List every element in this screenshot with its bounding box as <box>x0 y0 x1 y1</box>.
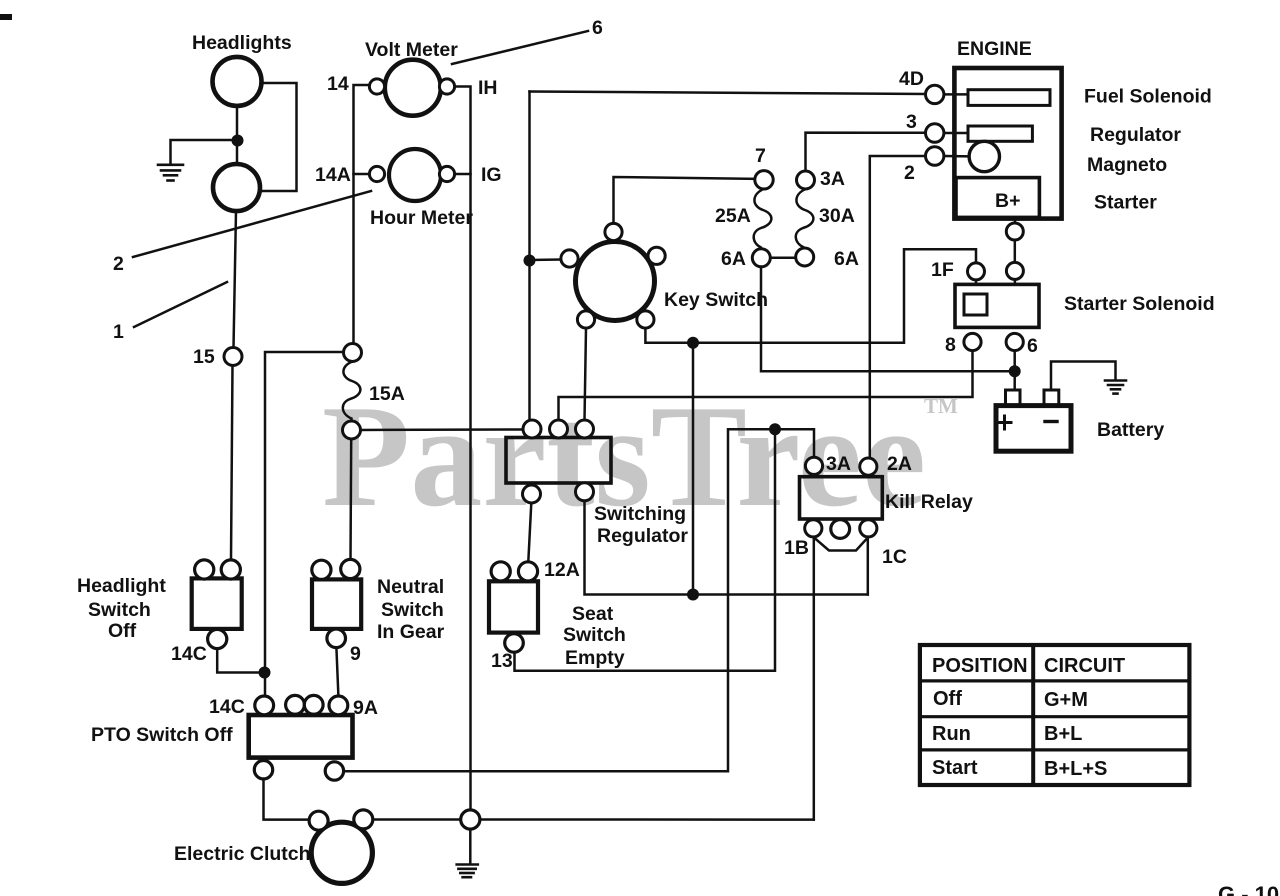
svg-text:7: 7 <box>755 145 766 167</box>
svg-text:3A: 3A <box>826 453 851 475</box>
wiring table frame <box>920 645 1190 785</box>
battery plus sign <box>998 416 1011 429</box>
wiring table column divider <box>1031 645 1035 785</box>
key switch S1 <box>576 242 655 321</box>
ground G3 (clutch line) <box>457 865 478 878</box>
headlight switch terminal bottom <box>208 629 227 648</box>
svg-text:15: 15 <box>193 346 215 368</box>
wire 6A link <box>771 257 796 260</box>
svg-text:Start: Start <box>932 757 978 779</box>
svg-text:Empty: Empty <box>565 647 625 669</box>
svg-text:Seat: Seat <box>572 603 614 625</box>
key switch terminal upper-right <box>648 247 665 264</box>
clutch terminal right <box>354 810 373 829</box>
wire 15A horizontal and 14C vertical <box>265 352 344 696</box>
svg-text:3: 3 <box>906 111 917 133</box>
wire regulator BR to kill relay 1C <box>585 501 868 595</box>
terminal 15 <box>224 348 242 366</box>
fuse F3 30A element <box>796 189 814 248</box>
wire key switch LL to regulator <box>585 328 587 420</box>
terminal 8 <box>964 333 981 350</box>
terminal 4D <box>926 85 944 103</box>
kill relay terminal 2A <box>860 458 877 475</box>
wire key switch top to fuse 7 <box>614 177 756 223</box>
connector on ground line <box>461 810 480 829</box>
wiring table row dividers <box>920 681 1190 750</box>
callout line 6 <box>452 31 588 64</box>
PTO terminal bottom left <box>254 761 272 779</box>
junction seat branch <box>769 423 781 435</box>
battery tab right <box>1044 390 1059 406</box>
wire B+ chain <box>1014 218 1017 224</box>
neutral switch terminal TL <box>312 560 331 579</box>
volt meter U1 <box>385 60 441 116</box>
regulator terminal top-right <box>576 420 594 438</box>
wire 4D feed vertical <box>528 92 531 421</box>
svg-text:13: 13 <box>491 650 513 672</box>
terminal 6 <box>1006 333 1023 350</box>
regulator terminal bottom-right <box>576 483 594 501</box>
junction B wire <box>524 255 536 267</box>
svg-text:B+L: B+L <box>1044 723 1082 745</box>
electric clutch coil <box>311 822 372 883</box>
wire key switch UL stub <box>530 258 562 261</box>
PTO terminal t1 14C <box>255 696 274 715</box>
kill relay terminal 3A <box>805 457 822 474</box>
battery minus sign <box>1045 420 1057 423</box>
wire S vertical <box>692 343 695 595</box>
clutch terminal left <box>309 811 328 830</box>
svg-text:PTO Switch Off: PTO Switch Off <box>91 724 233 746</box>
key switch terminal lower-right <box>637 311 654 328</box>
svg-text:Volt Meter: Volt Meter <box>365 39 458 61</box>
svg-text:G+M: G+M <box>1044 689 1088 711</box>
PTO terminal t3 <box>304 695 323 714</box>
fuel solenoid bar <box>968 90 1050 106</box>
wire 2 into engine <box>944 155 969 158</box>
wire IG stub <box>454 173 471 176</box>
svg-text:1F: 1F <box>931 259 954 281</box>
svg-text:Hour Meter: Hour Meter <box>370 207 473 229</box>
junction battery plus <box>1009 365 1021 377</box>
seat switch terminal TL <box>491 562 510 581</box>
svg-text:Off: Off <box>933 688 962 710</box>
wire 4D into engine <box>944 93 968 96</box>
kill relay terminal bottom 1C <box>860 520 877 537</box>
terminal 2 <box>926 147 944 165</box>
regulator terminal bottom-left <box>523 485 541 503</box>
svg-text:14C: 14C <box>209 696 245 718</box>
svg-text:6A: 6A <box>721 248 746 270</box>
svg-text:Switch: Switch <box>88 599 151 621</box>
svg-text:B+L+S: B+L+S <box>1044 758 1107 780</box>
wire 14 (volt meter to fuse 15A top) <box>354 85 371 344</box>
headlight switch box <box>192 578 242 629</box>
svg-text:30A: 30A <box>819 205 855 227</box>
svg-text:6A: 6A <box>834 248 859 270</box>
terminal below B+ <box>1006 223 1023 240</box>
svg-text:Neutral: Neutral <box>377 576 444 598</box>
wire battery minus to ground <box>1051 362 1116 391</box>
wire 4D horizontal <box>530 92 926 95</box>
kill relay terminal bottom 1B <box>805 520 822 537</box>
regulator bar <box>968 126 1032 141</box>
svg-text:IG: IG <box>481 164 502 186</box>
wire B+ chain 2 <box>1014 240 1017 262</box>
headlight switch terminal TR <box>221 560 240 579</box>
wire 9 neutral to PTO <box>336 648 338 696</box>
wire headlamps down to 15 <box>234 211 237 348</box>
svg-text:ENGINE: ENGINE <box>957 38 1032 60</box>
svg-text:Run: Run <box>932 723 971 745</box>
battery box <box>996 406 1071 452</box>
svg-text:2: 2 <box>904 162 915 184</box>
terminal 1F <box>968 263 985 280</box>
switching regulator box <box>506 438 611 484</box>
svg-text:6: 6 <box>592 17 603 39</box>
fuse F3 30A bottom terminal 6A <box>796 248 814 266</box>
svg-text:Regulator: Regulator <box>1090 124 1181 146</box>
watermark PartsTree <box>322 375 958 537</box>
wire regulator BL to seat switch <box>528 503 531 562</box>
neutral switch box <box>312 579 361 629</box>
headlamp L1 <box>213 57 262 106</box>
svg-text:3A: 3A <box>820 168 845 190</box>
svg-text:2: 2 <box>113 253 124 275</box>
wire IH ground line <box>454 87 471 811</box>
svg-text:CIRCUIT: CIRCUIT <box>1044 655 1125 677</box>
wire seat switch 13 branch <box>515 429 776 671</box>
svg-text:Switch: Switch <box>563 624 626 646</box>
svg-text:Battery: Battery <box>1097 419 1164 441</box>
starter solenoid inner square <box>964 294 987 315</box>
svg-text:G - 10: G - 10 <box>1218 882 1279 896</box>
svg-text:Key Switch: Key Switch <box>664 289 768 311</box>
fuse F2 25A top terminal 7 <box>755 171 773 189</box>
svg-text:Switching: Switching <box>594 503 686 525</box>
svg-text:1C: 1C <box>882 546 907 568</box>
wire 14C from headlight switch <box>217 649 264 673</box>
wire 6 to battery <box>1013 351 1016 390</box>
neutral switch terminal TR <box>341 559 360 578</box>
regulator terminal top-left <box>523 420 541 438</box>
kill relay box <box>800 477 883 519</box>
wire between headlamps <box>236 106 239 164</box>
fuse F1 15A top terminal <box>344 344 362 362</box>
svg-text:4D: 4D <box>899 68 924 90</box>
svg-text:15A: 15A <box>369 383 405 405</box>
wire 3 into engine <box>944 132 968 135</box>
B+ box <box>956 178 1039 218</box>
starter solenoid box <box>955 284 1039 327</box>
wire 15A fuse down to neutral switch <box>349 439 352 559</box>
svg-text:1B: 1B <box>784 537 809 559</box>
svg-text:14A: 14A <box>315 164 351 186</box>
PTO switch box <box>249 715 353 758</box>
seat switch box <box>489 581 538 632</box>
kill relay terminal bottom mid <box>831 520 850 539</box>
wire 14A stub <box>354 173 371 176</box>
fuse F1 15A element <box>343 362 361 422</box>
fuse F2 25A bottom terminal 6A <box>752 249 770 267</box>
fuse F3 30A top terminal 3A <box>797 171 815 189</box>
wire PTO to clutch <box>264 779 310 820</box>
svg-text:2A: 2A <box>887 453 912 475</box>
svg-text:Headlights: Headlights <box>192 32 292 54</box>
svg-text:IH: IH <box>478 77 498 99</box>
svg-text:8: 8 <box>945 334 956 356</box>
svg-text:Magneto: Magneto <box>1087 154 1167 176</box>
svg-text:Switch: Switch <box>381 599 444 621</box>
svg-text:Starter Solenoid: Starter Solenoid <box>1064 293 1215 315</box>
svg-text:Regulator: Regulator <box>597 525 688 547</box>
wire key switch LR to 1F <box>645 249 976 342</box>
svg-text:Electric Clutch: Electric Clutch <box>174 843 311 865</box>
wire engine 2 to kill relay 2A <box>870 156 926 458</box>
PTO terminal t2 <box>286 695 305 714</box>
seat switch terminal bottom <box>505 634 524 653</box>
scan speck top-left <box>0 14 12 20</box>
magneto circle <box>969 141 999 171</box>
svg-text:Starter: Starter <box>1094 192 1157 214</box>
terminal 3 <box>926 124 944 142</box>
svg-text:1: 1 <box>113 321 124 343</box>
wire terminals into solenoid box <box>976 279 1015 284</box>
svg-text:Fuel Solenoid: Fuel Solenoid <box>1084 86 1212 108</box>
svg-text:Off: Off <box>108 620 137 642</box>
fuse F2 25A element <box>754 189 772 249</box>
wire 25A fuse to battery plus <box>761 267 1015 372</box>
wire 15 to headlight switch <box>231 366 233 560</box>
wire headlamp ground stub <box>171 140 238 164</box>
PTO terminal bottom right <box>325 762 343 780</box>
fuse F1 15A bottom terminal <box>343 421 361 439</box>
svg-text:14C: 14C <box>171 643 207 665</box>
junction 14C <box>259 667 271 679</box>
wire 30A fuse up to engine 3 <box>806 133 926 171</box>
wire kill relay loop <box>813 537 868 551</box>
svg-text:In Gear: In Gear <box>377 621 445 643</box>
key switch terminal lower-left <box>577 311 594 328</box>
wire 1B down to clutch line <box>813 537 816 820</box>
wire 1C riser <box>867 537 870 595</box>
ground G2 (battery) <box>1105 381 1126 394</box>
battery tab left <box>1006 390 1021 406</box>
wire 3A feed <box>343 429 814 771</box>
terminal starter solenoid top right <box>1006 262 1023 279</box>
ground G1 (headlights) <box>158 165 183 181</box>
hour meter U2 <box>389 149 441 201</box>
junction headlamps ground <box>232 135 244 147</box>
engine box <box>954 68 1061 219</box>
key switch terminal top <box>605 223 622 240</box>
wire connector to ground <box>469 829 472 863</box>
svg-text:Headlight: Headlight <box>77 575 166 597</box>
wire 8 to switching regulator <box>559 351 973 420</box>
svg-text:POSITION: POSITION <box>932 655 1028 677</box>
headlight switch terminal TL <box>195 560 214 579</box>
regulator terminal top-mid <box>550 420 568 438</box>
neutral switch terminal bottom <box>327 629 346 648</box>
seat switch terminal TR <box>518 562 537 581</box>
svg-text:25A: 25A <box>715 205 751 227</box>
wire 15A fuse to regulator <box>361 428 524 431</box>
headlamp L2 <box>213 164 260 211</box>
svg-text:Kill Relay: Kill Relay <box>885 491 973 513</box>
svg-text:9: 9 <box>350 643 361 665</box>
wire clutch to kill relay 1B <box>373 818 814 821</box>
PTO terminal t4 9A <box>329 696 348 715</box>
wire headlamp right bracket <box>262 83 297 191</box>
callout line 2 <box>133 191 371 257</box>
callout line 1 <box>134 282 227 327</box>
svg-text:B+: B+ <box>995 190 1020 212</box>
volt meter terminals <box>369 79 384 94</box>
junction S at L wire <box>687 589 699 601</box>
svg-text:14: 14 <box>327 73 349 95</box>
hour meter terminals <box>369 166 384 181</box>
svg-text:9A: 9A <box>353 697 378 719</box>
svg-text:6: 6 <box>1027 335 1038 357</box>
svg-text:12A: 12A <box>544 559 580 581</box>
key switch terminal upper-left <box>561 250 578 267</box>
junction S wire <box>687 337 699 349</box>
